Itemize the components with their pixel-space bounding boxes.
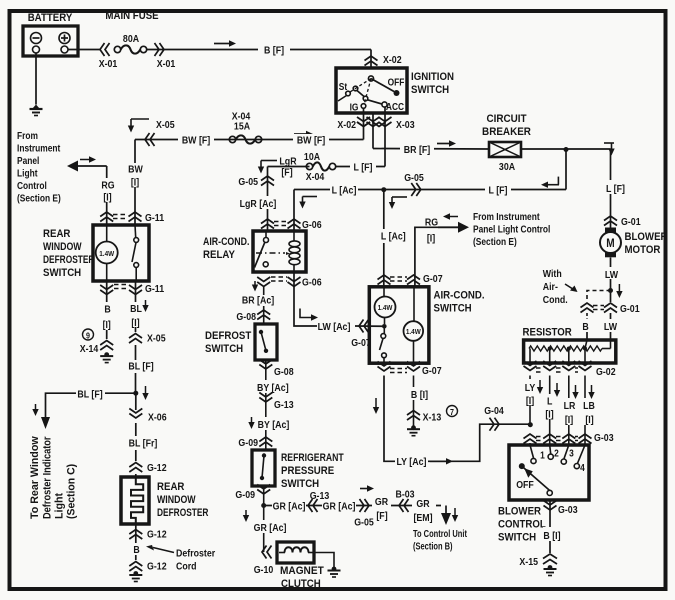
svg-text:GR [Ac]: GR [Ac]: [273, 501, 306, 513]
connector G-03 below switch: [544, 501, 557, 506]
connector G-08 above defrost switch: [257, 310, 270, 315]
svg-text:1.4W: 1.4W: [99, 250, 114, 258]
reference bracket at L[Ac]: [392, 196, 407, 198]
ground X-13: [411, 425, 416, 430]
svg-text:RG: RG: [101, 180, 114, 192]
svg-text:X-14: X-14: [80, 343, 99, 355]
svg-text:G-09: G-09: [238, 437, 258, 449]
svg-text:G-05: G-05: [354, 517, 374, 529]
svg-text:BL [Fr]: BL [Fr]: [129, 438, 158, 450]
connector G-12 ground: [129, 562, 142, 567]
svg-text:BL: BL: [130, 303, 142, 315]
svg-text:Cond.: Cond.: [543, 294, 568, 306]
wire top B[F] bus: [147, 49, 372, 51]
label BW [F] left: [178, 133, 214, 146]
svg-text:G-01: G-01: [621, 216, 641, 228]
label GR [Ac] 1: [272, 499, 306, 512]
svg-text:BW: BW: [128, 164, 143, 176]
connector G-04: [490, 418, 495, 431]
arrow LB: [591, 385, 593, 393]
svg-text:LY: LY: [525, 382, 536, 394]
svg-text:BY [Ac]: BY [Ac]: [258, 419, 290, 431]
wire below blower switch: [549, 500, 551, 553]
node 7 circled: [447, 406, 458, 417]
arrow LY: [539, 380, 541, 388]
connector G-07 above aircond switch: [378, 275, 391, 280]
svg-text:B [I]: B [I]: [411, 389, 428, 401]
svg-text:X-03: X-03: [396, 119, 415, 131]
svg-text:[I]: [I]: [427, 233, 435, 245]
connector G-12 above defroster: [129, 463, 142, 468]
svg-text:Air-: Air-: [543, 281, 558, 293]
ground magnet clutch: [332, 567, 337, 572]
svg-text:G-03: G-03: [558, 504, 578, 516]
wire BL to defroster: [135, 393, 137, 410]
svg-text:X-05: X-05: [156, 119, 175, 131]
svg-text:LW: LW: [604, 321, 618, 333]
connector X-02 below ignition: [357, 117, 370, 122]
arrow above GR: [360, 488, 368, 490]
connector G-08 below: [259, 360, 272, 365]
wire ACC terminal down: [384, 107, 386, 167]
svg-text:REFRIGERANT: REFRIGERANT: [281, 452, 344, 464]
connector X-01 left: [100, 43, 105, 56]
svg-text:G-09: G-09: [235, 489, 255, 501]
svg-text:[I]: [I]: [103, 319, 111, 331]
label LW above resistor: [602, 317, 619, 330]
svg-text:DEFROSTER: DEFROSTER: [43, 254, 94, 266]
svg-text:BLOWER: BLOWER: [625, 232, 668, 244]
wire GR horizontal: [264, 505, 441, 507]
label LY [Ac]: [395, 455, 428, 467]
wire below defroster: [135, 524, 137, 560]
svg-text:To Rear Window: To Rear Window: [29, 436, 41, 519]
svg-text:[I]: [I]: [526, 395, 534, 407]
svg-text:7: 7: [450, 407, 455, 417]
svg-text:G-11: G-11: [145, 283, 165, 295]
svg-text:CLUTCH: CLUTCH: [281, 579, 321, 591]
arrow small right RG left: [80, 159, 90, 161]
svg-text:[I]: [I]: [131, 317, 139, 329]
svg-text:X-02: X-02: [337, 119, 356, 131]
svg-text:To Control Unit: To Control Unit: [413, 528, 467, 539]
reference bracket after L[Ac] corner: [303, 196, 318, 198]
svg-text:X-15: X-15: [519, 556, 538, 568]
svg-text:[I]: [I]: [545, 409, 553, 421]
wire BR[F] horizontal: [373, 148, 489, 151]
svg-text:G-12: G-12: [147, 462, 167, 474]
svg-text:LR: LR: [564, 400, 576, 412]
svg-text:B [F]: B [F]: [264, 45, 284, 57]
svg-text:X-04: X-04: [306, 171, 325, 183]
svg-text:OFF: OFF: [516, 479, 534, 491]
label L [F] right: [600, 180, 614, 194]
connector X-02 top: [365, 56, 378, 61]
svg-text:G-07: G-07: [422, 365, 442, 377]
refrigerant pressure switch S5: [252, 450, 275, 486]
svg-text:CIRCUIT: CIRCUIT: [486, 114, 527, 126]
wire L[Ac] horizontal: [294, 189, 566, 191]
svg-text:GR [Ac]: GR [Ac]: [323, 501, 356, 513]
svg-text:RELAY: RELAY: [203, 250, 235, 262]
svg-text:LW: LW: [605, 269, 619, 281]
wire magnet clutch to ground: [314, 553, 334, 570]
label LY [I]: [523, 379, 537, 405]
svg-text:Light: Light: [53, 493, 65, 519]
node 9 circled: [83, 329, 94, 340]
svg-text:B: B: [104, 304, 110, 316]
resistor R1 box: [524, 340, 616, 363]
connector X-13: [407, 411, 420, 416]
node BL junction: [133, 391, 138, 396]
arrow GR: [245, 510, 247, 516]
node breaker output junction: [564, 147, 569, 152]
svg-text:LY [Ac]: LY [Ac]: [397, 456, 427, 468]
connector on GR line 1: [308, 499, 313, 512]
main fuse 80A: [114, 46, 120, 52]
ground X-15: [548, 565, 553, 570]
reference bracket blower drop: [604, 142, 614, 144]
svg-text:With: With: [543, 268, 562, 280]
svg-text:X-02: X-02: [383, 54, 402, 66]
svg-text:30A: 30A: [499, 161, 515, 173]
svg-text:L [Ac]: L [Ac]: [332, 185, 357, 197]
svg-text:(Section E): (Section E): [17, 193, 61, 204]
svg-text:3: 3: [569, 448, 574, 459]
connector B-03: [399, 499, 404, 512]
connector G-06 above relay: [261, 219, 274, 224]
svg-text:B-03: B-03: [395, 489, 415, 501]
svg-text:1.4W: 1.4W: [406, 329, 421, 337]
arrow LR: [575, 385, 577, 393]
connector G-05 on L line: [411, 183, 416, 196]
svg-text:80A: 80A: [123, 33, 139, 45]
svg-text:BR [Ac]: BR [Ac]: [242, 295, 274, 307]
label L [I]: [543, 394, 556, 419]
wire LY output: [529, 376, 531, 425]
svg-text:SWITCH: SWITCH: [205, 344, 243, 356]
svg-text:Control: Control: [17, 180, 47, 191]
svg-text:SWITCH: SWITCH: [434, 303, 472, 315]
svg-text:RG: RG: [425, 217, 438, 229]
label B above resistor: [580, 317, 591, 330]
arrow small left at RG: [449, 216, 458, 218]
svg-text:G-13: G-13: [274, 399, 294, 411]
label GR [F]: [372, 499, 391, 512]
svg-text:GR: GR: [416, 498, 429, 510]
node blower junction: [608, 288, 613, 293]
svg-text:BR [F]: BR [F]: [404, 144, 430, 156]
svg-text:OFF: OFF: [388, 77, 405, 88]
label L [F] at 10A: [350, 160, 376, 173]
svg-text:G-02: G-02: [596, 366, 616, 378]
svg-text:CONTROL: CONTROL: [498, 519, 546, 531]
svg-text:DEFROSTER: DEFROSTER: [157, 507, 208, 519]
svg-text:G-06: G-06: [302, 277, 322, 289]
svg-text:G-07: G-07: [351, 337, 371, 349]
svg-text:X-01: X-01: [157, 58, 176, 70]
connector G-12 below defroster: [129, 530, 142, 535]
svg-text:X-01: X-01: [99, 58, 118, 70]
connector X-03 below ignition: [367, 117, 380, 122]
svg-text:(Section E): (Section E): [473, 236, 517, 247]
arrow beside BR[Ac] wire: [254, 281, 256, 286]
wire B[I] to ground: [413, 376, 415, 427]
wire L output: [549, 376, 551, 446]
connector X-05 on BW line: [145, 133, 150, 146]
reference bracket LgR: [261, 160, 277, 162]
wire B[I] down to X-14: [106, 281, 108, 302]
label GR [EM]: [412, 499, 436, 512]
label GR [Ac] 2: [322, 499, 356, 512]
svg-text:[I]: [I]: [565, 414, 573, 426]
arrow L: [556, 383, 558, 391]
arrow small BL: [35, 404, 37, 410]
svg-text:G-05: G-05: [404, 172, 424, 184]
magnet clutch L1: [277, 542, 314, 563]
connector G-05 on LgR: [261, 176, 274, 181]
circuit breaker CB1: [489, 142, 521, 157]
svg-text:[I]: [I]: [131, 177, 139, 189]
svg-text:SWITCH: SWITCH: [281, 479, 319, 491]
svg-text:GR: GR: [375, 496, 388, 508]
svg-text:(Section C): (Section C): [65, 463, 77, 519]
connector X-06: [129, 409, 142, 414]
reference bracket LW: [300, 309, 311, 318]
svg-text:G-07: G-07: [423, 273, 443, 285]
svg-text:[F]: [F]: [376, 510, 387, 522]
ground X-14: [104, 352, 109, 357]
connector G-03 quad: [524, 434, 537, 439]
svg-text:X-06: X-06: [148, 412, 167, 424]
svg-text:G-03: G-03: [594, 432, 614, 444]
svg-text:BW [F]: BW [F]: [297, 135, 325, 147]
svg-text:G-04: G-04: [484, 405, 504, 417]
wire below defrost switch: [265, 360, 267, 450]
svg-text:WINDOW: WINDOW: [157, 494, 196, 506]
svg-text:Defroster: Defroster: [176, 548, 215, 560]
arrow on B[F] bus: [214, 43, 230, 45]
svg-text:(Section B): (Section B): [413, 540, 453, 551]
svg-text:MAGNET: MAGNET: [280, 565, 324, 577]
svg-text:Panel: Panel: [17, 155, 39, 166]
arrow GR line end: [441, 513, 451, 525]
svg-text:[I]: [I]: [585, 414, 593, 426]
svg-text:From Instrument: From Instrument: [473, 211, 540, 222]
defrost switch S4: [255, 324, 277, 360]
svg-text:SWITCH: SWITCH: [498, 532, 536, 544]
label BL [F] horizontal: [76, 387, 105, 400]
connector G-11 below: [100, 290, 113, 295]
svg-text:Instrument: Instrument: [17, 143, 60, 154]
fuse 10A: [306, 163, 312, 169]
svg-text:9: 9: [86, 331, 91, 341]
svg-text:REAR: REAR: [157, 482, 185, 494]
svg-text:SWITCH: SWITCH: [411, 85, 449, 97]
svg-text:4: 4: [580, 462, 585, 473]
wire LW[Ac]: [294, 272, 317, 326]
label B [F] top: [258, 43, 290, 56]
svg-text:SWITCH: SWITCH: [43, 268, 81, 280]
label BR [F]: [400, 143, 434, 155]
svg-text:G-12: G-12: [147, 529, 167, 541]
svg-text:LgR [Ac]: LgR [Ac]: [240, 198, 277, 210]
svg-text:LB: LB: [583, 400, 595, 412]
svg-text:IGNITION: IGNITION: [411, 72, 454, 84]
connector G-07 below aircond switch: [378, 362, 391, 367]
svg-text:BATTERY: BATTERY: [28, 13, 73, 25]
ignition switch S1: [336, 68, 407, 113]
wire battery negative to ground: [35, 53, 37, 105]
svg-text:L [Ac]: L [Ac]: [381, 231, 406, 243]
svg-text:BL [F]: BL [F]: [128, 361, 153, 373]
label B defroster: [131, 543, 141, 555]
wire LY into switch: [529, 443, 531, 445]
arrow BL left end: [41, 417, 50, 429]
label LB [I]: [578, 398, 592, 425]
svg-text:BLOWER: BLOWER: [498, 506, 541, 518]
svg-text:From: From: [17, 130, 38, 141]
blower motor M1: [605, 228, 616, 233]
wire LgR[F] horizontal: [268, 166, 310, 168]
arrow above BR[F]: [437, 143, 450, 145]
connector G-02 quad: [524, 361, 537, 366]
svg-text:G-11: G-11: [145, 212, 165, 224]
arrow beside BL junction: [145, 386, 147, 394]
wire down to blower motor: [610, 149, 612, 233]
wire LR output: [568, 376, 570, 446]
connector G-06 below relay: [257, 282, 270, 287]
wire LW into resistor: [610, 313, 612, 319]
svg-text:MOTOR: MOTOR: [625, 245, 661, 257]
svg-text:WINDOW: WINDOW: [43, 241, 82, 253]
wire B into resistor: [586, 313, 588, 319]
connector G-11 above: [100, 212, 113, 217]
wire relay to defrost switch: [263, 287, 265, 295]
svg-text:BREAKER: BREAKER: [482, 127, 531, 139]
wire BL[F] left branch: [46, 393, 136, 417]
arrow big left RG: [78, 165, 107, 167]
svg-text:2: 2: [554, 448, 559, 459]
svg-text:Cord: Cord: [176, 561, 197, 573]
arrow above BW[F] right: [294, 133, 307, 135]
connector G-01 lower pair: [581, 303, 594, 308]
connector G-01 top: [604, 216, 617, 221]
label LR [I]: [562, 398, 576, 425]
label BW [F] right: [293, 134, 329, 146]
svg-text:G-08: G-08: [236, 311, 256, 323]
wire RG down: [106, 166, 108, 178]
battery B1: [23, 26, 78, 56]
wire BL down: [135, 281, 137, 302]
label L [F] mid: [485, 183, 511, 196]
connector G-10: [262, 546, 267, 559]
wire RG branch: [415, 227, 438, 287]
svg-text:G-12: G-12: [147, 561, 167, 573]
arrow small GR end: [454, 508, 456, 516]
svg-text:G-05: G-05: [238, 176, 258, 188]
ground defroster: [133, 571, 138, 576]
svg-text:BW [F]: BW [F]: [182, 135, 210, 147]
svg-text:G-06: G-06: [302, 219, 322, 231]
label LW under motor: [603, 267, 619, 279]
svg-text:DEFROST: DEFROST: [205, 331, 252, 343]
wire L[F] up to breaker line: [565, 149, 567, 190]
wire B terminal down: [372, 113, 374, 149]
svg-text:G-10: G-10: [254, 564, 274, 576]
svg-text:1: 1: [540, 450, 545, 461]
svg-text:15A: 15A: [234, 121, 250, 133]
svg-text:B: B: [582, 321, 588, 333]
svg-text:PRESSURE: PRESSURE: [281, 466, 334, 478]
connector on GR line 2: [360, 499, 365, 512]
node G-04 junction: [528, 422, 533, 427]
svg-text:ACC: ACC: [386, 101, 404, 112]
wire battery positive to X-01: [68, 49, 100, 51]
svg-text:LW [Ac]: LW [Ac]: [318, 321, 351, 333]
label BY [Ac] 1: [258, 380, 274, 393]
wire relay coil up to L[Ac]: [293, 190, 295, 232]
fuse X-04 15A: [229, 136, 235, 142]
wire IG terminal down: [363, 108, 365, 140]
svg-text:AIR-COND.: AIR-COND.: [434, 290, 485, 302]
wire below refrigerant switch: [263, 486, 265, 552]
air-cond switch S2: [369, 287, 429, 363]
svg-text:X-13: X-13: [423, 412, 442, 424]
wire BW down: [134, 140, 136, 164]
arrow with-aircond: [565, 284, 576, 291]
label GR [Ac] vertical: [256, 520, 272, 533]
svg-text:Panel Light Control: Panel Light Control: [473, 224, 550, 235]
arrow beside aircond output: [375, 398, 377, 408]
connector X-15: [543, 554, 557, 559]
node GR junction: [261, 503, 266, 508]
svg-text:L [F]: L [F]: [489, 185, 508, 197]
svg-text:[EM]: [EM]: [413, 512, 432, 524]
wire LgR down: [267, 167, 269, 232]
svg-text:REAR: REAR: [43, 229, 71, 241]
arrow on LY[Ac] wire: [430, 460, 447, 462]
label LgR [Ac]: [260, 196, 275, 209]
svg-text:B [I]: B [I]: [543, 530, 560, 542]
svg-text:L [F]: L [F]: [354, 162, 373, 174]
wire LB output: [584, 376, 586, 446]
svg-text:X-05: X-05: [147, 333, 166, 345]
label B [I] blower: [543, 527, 558, 541]
svg-text:1.4W: 1.4W: [378, 305, 393, 313]
connector X-01 right: [155, 43, 160, 56]
label RG [I] right: [423, 231, 440, 243]
svg-text:IG: IG: [350, 102, 359, 113]
svg-text:G-01: G-01: [620, 303, 640, 315]
air-cond relay K1: [253, 231, 306, 272]
connector X-14 ground chevrons: [100, 341, 113, 346]
svg-text:RESISTOR: RESISTOR: [523, 327, 573, 339]
label L [Ac] on line: [330, 183, 358, 196]
wire to ignition switch: [370, 50, 372, 69]
svg-text:B: B: [133, 544, 139, 556]
svg-text:G-08: G-08: [274, 366, 294, 378]
wire L[Ac] down to switch: [383, 190, 385, 229]
svg-text:Light: Light: [17, 168, 37, 179]
arrow big right at RG: [438, 226, 458, 228]
svg-text:GR [Ac]: GR [Ac]: [254, 522, 287, 534]
blower control switch S3: [509, 445, 589, 500]
connector G-09 below: [257, 485, 270, 490]
wire BW[F] horizontal: [135, 139, 364, 141]
wire LY[Ac] from aircond switch: [384, 376, 530, 462]
arrow beside LW wire: [618, 284, 620, 292]
